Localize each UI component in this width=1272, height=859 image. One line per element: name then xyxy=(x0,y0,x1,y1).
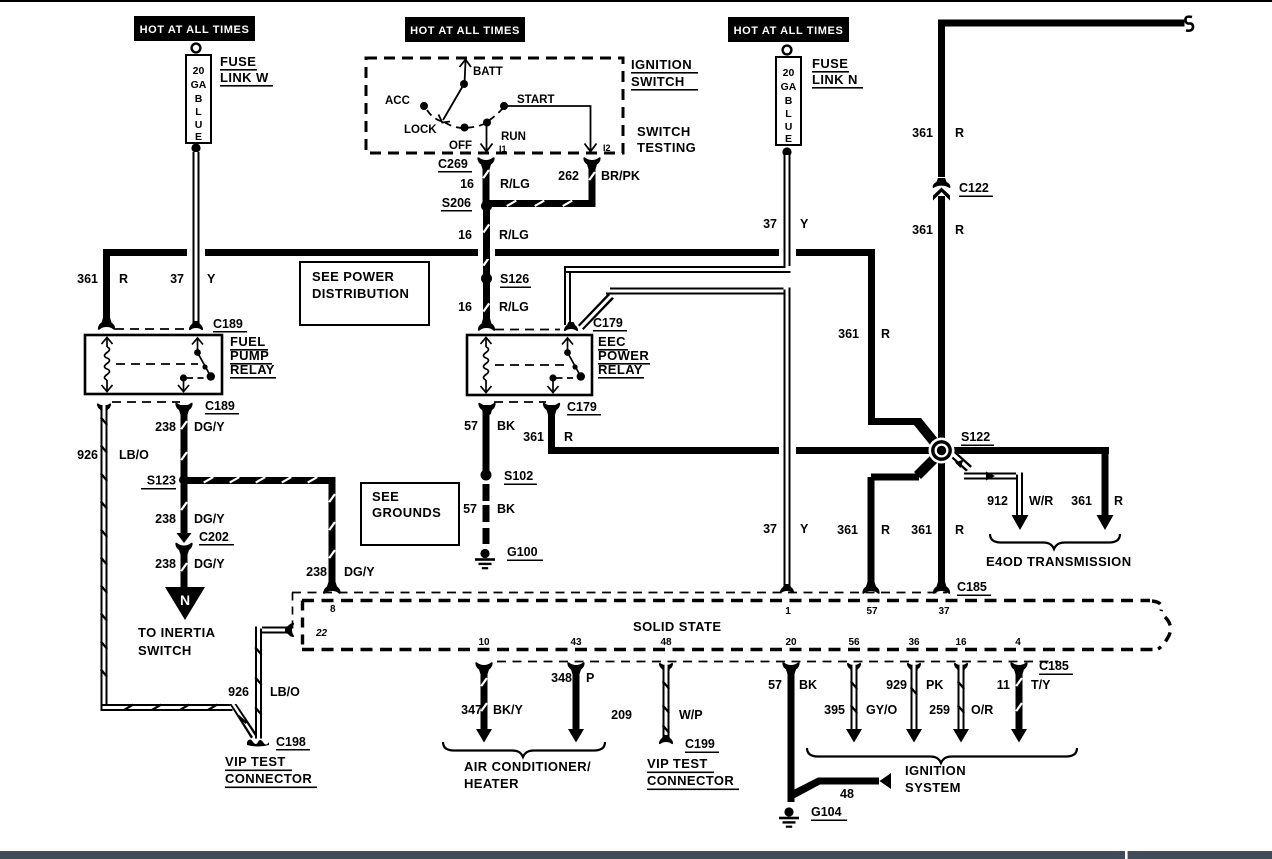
svg-text:EEC: EEC xyxy=(598,334,626,349)
splice S126 xyxy=(481,273,492,284)
svg-text:Y: Y xyxy=(207,272,216,286)
svg-text:1: 1 xyxy=(785,606,791,617)
svg-text:S126: S126 xyxy=(500,272,529,286)
top border line xyxy=(0,0,1272,2)
pin 20 wire 57 BK down to G104 xyxy=(782,662,799,802)
svg-text:BK: BK xyxy=(497,502,515,516)
svg-text:C179: C179 xyxy=(593,316,623,330)
svg-text:BK: BK xyxy=(497,419,515,433)
svg-text:BK/Y: BK/Y xyxy=(493,703,524,717)
dashed wire 57 BK S102 to G100 xyxy=(483,484,490,544)
pin 4 wire 11 T/Y xyxy=(1010,662,1027,742)
solid state module heavy dashed outline xyxy=(302,601,1171,650)
svg-text:Y: Y xyxy=(800,522,809,536)
svg-text:I2: I2 xyxy=(603,143,611,153)
svg-text:OFF: OFF xyxy=(449,140,472,152)
svg-text:DG/Y: DG/Y xyxy=(344,565,375,579)
svg-text:DISTRIBUTION: DISTRIBUTION xyxy=(312,286,409,301)
wire B: C179 diagonal up right then down to C185 pin 1 (37 Y) xyxy=(578,288,794,594)
svg-text:37: 37 xyxy=(938,606,950,617)
continuation S squiggle top right xyxy=(1185,17,1193,31)
svg-text:395: 395 xyxy=(824,703,845,717)
label C179 top xyxy=(593,316,627,332)
connector C122 inline xyxy=(933,177,951,201)
svg-text:238: 238 xyxy=(155,557,176,571)
svg-text:VIP TEST: VIP TEST xyxy=(647,756,708,771)
connector C185 top thin dashed line xyxy=(292,593,947,635)
svg-text:4: 4 xyxy=(1015,637,1021,648)
label IGNITION SYSTEM xyxy=(905,763,966,795)
svg-text:57: 57 xyxy=(768,678,782,692)
svg-text:37: 37 xyxy=(763,217,777,231)
svg-text:SEE POWER: SEE POWER xyxy=(312,269,395,284)
svg-text:SWITCH: SWITCH xyxy=(631,74,685,89)
svg-text:11: 11 xyxy=(997,678,1010,692)
svg-text:SOLID STATE: SOLID STATE xyxy=(633,619,721,634)
label C202 xyxy=(199,530,234,546)
svg-text:R: R xyxy=(955,223,964,237)
svg-text:O/R: O/R xyxy=(971,703,993,717)
926 wire hatch marks horizontal xyxy=(123,704,218,711)
redraw 37 Y wire over crossing xyxy=(784,443,791,458)
svg-text:R: R xyxy=(564,430,573,444)
svg-text:SEE: SEE xyxy=(372,489,399,504)
svg-text:W/P: W/P xyxy=(679,708,703,722)
main 361 R bus wire horizontal xyxy=(103,249,875,256)
svg-text:R: R xyxy=(955,126,964,140)
label VIP TEST CONNECTOR (left) xyxy=(225,754,317,788)
svg-text:BATT: BATT xyxy=(473,66,503,78)
label C189 top xyxy=(213,317,247,333)
svg-text:R: R xyxy=(1114,494,1123,508)
svg-text:57: 57 xyxy=(866,606,878,617)
svg-text:GY/O: GY/O xyxy=(866,703,898,717)
svg-text:IGNITION: IGNITION xyxy=(631,57,692,72)
svg-text:G100: G100 xyxy=(507,545,538,559)
svg-text:E: E xyxy=(785,133,792,145)
svg-text:C122: C122 xyxy=(959,181,989,195)
svg-text:57: 57 xyxy=(464,419,478,433)
white break in bus at 37 Y wire crossing xyxy=(779,247,796,259)
svg-text:W/R: W/R xyxy=(1029,494,1053,508)
svg-text:262: 262 xyxy=(558,169,579,183)
svg-text:RELAY: RELAY xyxy=(230,362,275,377)
svg-text:926: 926 xyxy=(228,685,249,699)
fuel pump relay box xyxy=(85,335,222,394)
svg-text:E4OD TRANSMISSION: E4OD TRANSMISSION xyxy=(986,554,1131,569)
fuse link W symbol xyxy=(186,44,211,153)
svg-text:FUEL: FUEL xyxy=(230,334,266,349)
wire 238 C202 down to N triangle xyxy=(180,550,188,588)
svg-text:Y: Y xyxy=(800,217,809,231)
svg-text:S102: S102 xyxy=(504,469,533,483)
svg-text:DG/Y: DG/Y xyxy=(194,557,225,571)
svg-text:C269: C269 xyxy=(438,157,468,171)
svg-text:R/LG: R/LG xyxy=(499,228,529,242)
svg-text:SYSTEM: SYSTEM xyxy=(905,780,961,795)
HOT AT ALL TIMES box 1 xyxy=(134,16,255,41)
svg-text:238: 238 xyxy=(306,565,327,579)
svg-text:C189: C189 xyxy=(205,399,235,413)
BATT terminal arrow xyxy=(465,61,466,84)
svg-text:LINK N: LINK N xyxy=(812,72,858,87)
wire 361 R EEC relay down then right to S122 xyxy=(548,405,930,454)
svg-text:SWITCH: SWITCH xyxy=(138,643,192,658)
pin 36 wire 929 PK xyxy=(906,663,922,743)
svg-text:TESTING: TESTING xyxy=(637,140,696,155)
wire fuse W down to C189 (37 Y thin) xyxy=(189,152,203,330)
svg-text:GA: GA xyxy=(781,81,797,93)
svg-text:PUMP: PUMP xyxy=(230,348,269,363)
svg-text:361: 361 xyxy=(1071,494,1092,508)
ignition switch dashed box xyxy=(366,58,623,153)
svg-text:RUN: RUN xyxy=(501,131,526,143)
label C185 top xyxy=(957,580,991,596)
svg-text:56: 56 xyxy=(848,637,860,648)
svg-text:T/Y: T/Y xyxy=(1031,678,1051,692)
svg-text:VIP TEST: VIP TEST xyxy=(225,754,286,769)
svg-text:S206: S206 xyxy=(442,196,471,210)
HOT AT ALL TIMES box 2 xyxy=(405,17,525,42)
926 wire hatch marks vertical xyxy=(100,417,108,678)
svg-text:P: P xyxy=(586,671,594,685)
label AIR CONDITIONER/HEATER xyxy=(464,759,591,791)
A/C heater brace xyxy=(443,742,605,757)
svg-text:LINK W: LINK W xyxy=(220,70,269,85)
svg-text:R: R xyxy=(881,327,890,341)
svg-text:START: START xyxy=(517,94,554,106)
fuel pump relay internals xyxy=(102,338,211,392)
svg-text:BR/PK: BR/PK xyxy=(601,169,640,183)
svg-text:I1: I1 xyxy=(499,144,507,154)
svg-text:361: 361 xyxy=(837,523,858,537)
ground G104 xyxy=(779,807,799,827)
svg-text:S123: S123 xyxy=(147,474,176,488)
wire S126 to C179 (16 R/LG) xyxy=(478,283,495,331)
splice S102 xyxy=(481,470,492,481)
label IGNITION SWITCH xyxy=(631,57,698,91)
svg-text:HOT AT ALL TIMES: HOT AT ALL TIMES xyxy=(734,25,844,37)
label VIP TEST CONNECTOR (right) xyxy=(647,756,739,790)
connector C179 top dashed line xyxy=(495,329,560,331)
svg-text:FUSE: FUSE xyxy=(220,54,256,69)
label C269 xyxy=(438,157,472,173)
pin 16 wire 259 O/R xyxy=(953,663,969,743)
svg-text:L: L xyxy=(785,108,792,120)
SE branch: thin 912 W/R wire to E4OD xyxy=(949,450,1029,530)
fuse link N symbol xyxy=(776,46,801,157)
svg-text:FUSE: FUSE xyxy=(812,56,848,71)
wire A: fuse N down, left, down to C179 (37 Y) xyxy=(564,155,791,325)
ground G100 xyxy=(475,549,495,569)
svg-text:43: 43 xyxy=(570,637,582,648)
connector C189 top dashed line xyxy=(103,327,110,329)
svg-text:IGNITION: IGNITION xyxy=(905,763,966,778)
svg-text:HOT AT ALL TIMES: HOT AT ALL TIMES xyxy=(410,25,520,37)
N arrow to inertia switch xyxy=(165,587,205,620)
svg-text:C185: C185 xyxy=(1039,659,1069,673)
label SWITCH TESTING xyxy=(637,124,696,155)
svg-text:S122: S122 xyxy=(961,430,990,444)
E4OD brace xyxy=(990,534,1120,549)
label S122 xyxy=(961,430,994,446)
svg-text:GA: GA xyxy=(191,79,207,91)
white break in bus at R/LG wire crossing xyxy=(478,247,495,259)
START wire right and down with arrow xyxy=(505,106,591,150)
label FUSE LINK N xyxy=(812,56,863,89)
svg-text:361: 361 xyxy=(911,523,932,537)
svg-text:20: 20 xyxy=(783,67,795,79)
redraw R/LG wire over crossing xyxy=(483,246,490,259)
svg-text:LB/O: LB/O xyxy=(119,448,149,462)
svg-text:37: 37 xyxy=(170,272,184,286)
svg-text:N: N xyxy=(180,592,190,608)
wire 238 DG/Y C189 to S123 xyxy=(180,405,188,480)
wire I1 to S206 (16 R/LG) xyxy=(477,157,494,206)
svg-text:912: 912 xyxy=(987,494,1008,508)
label C189 bottom xyxy=(205,399,239,415)
svg-text:10: 10 xyxy=(478,637,490,648)
label FUSE LINK W xyxy=(220,54,273,87)
svg-text:48: 48 xyxy=(660,637,672,648)
svg-text:C199: C199 xyxy=(685,737,715,751)
svg-text:C179: C179 xyxy=(567,400,597,414)
E branch: thick right then down to E4OD arrow xyxy=(945,447,1114,530)
label C199 xyxy=(685,737,719,753)
svg-text:37: 37 xyxy=(763,522,777,536)
switch position dots xyxy=(460,80,468,88)
branch 48 to ignition system xyxy=(788,773,892,802)
S122 junction circle xyxy=(929,438,955,464)
svg-text:347: 347 xyxy=(461,703,482,717)
svg-text:16: 16 xyxy=(460,177,474,191)
svg-text:LB/O: LB/O xyxy=(270,685,300,699)
wire pin22 left and down to C198 xyxy=(254,627,291,739)
svg-text:TO INERTIA: TO INERTIA xyxy=(138,625,216,640)
svg-text:C185: C185 xyxy=(957,580,987,594)
svg-text:G104: G104 xyxy=(811,805,842,819)
svg-text:22: 22 xyxy=(315,628,328,639)
svg-text:361: 361 xyxy=(838,327,859,341)
svg-text:R: R xyxy=(881,523,890,537)
svg-text:36: 36 xyxy=(908,637,920,648)
label TO INERTIA SWITCH xyxy=(138,625,216,658)
svg-text:U: U xyxy=(195,119,203,131)
svg-text:361: 361 xyxy=(523,430,544,444)
svg-text:E: E xyxy=(195,131,202,143)
RUN terminal wire with down arrow xyxy=(486,124,488,150)
wire 238 DG/Y S123 right then down to pin 8 xyxy=(184,476,341,594)
svg-text:CONNECTOR: CONNECTOR xyxy=(225,771,312,786)
wire 361 R vertical x941 top to S122 to C185 pin 37 xyxy=(938,20,1185,589)
svg-text:HOT AT ALL TIMES: HOT AT ALL TIMES xyxy=(140,24,250,36)
connector C179 bottom dashed line xyxy=(494,401,546,403)
svg-text:SWITCH: SWITCH xyxy=(637,124,691,139)
svg-text:C202: C202 xyxy=(199,530,229,544)
svg-text:DG/Y: DG/Y xyxy=(194,420,225,434)
blade from BATT pivot to LOCK xyxy=(443,84,464,120)
EEC power relay box xyxy=(467,335,592,395)
svg-text:POWER: POWER xyxy=(598,348,649,363)
wire I2 (262 BR/PK) down and left to S206 xyxy=(489,157,601,207)
ignition system brace xyxy=(807,748,1077,763)
C189 bottom pin bells xyxy=(97,403,111,412)
svg-text:DG/Y: DG/Y xyxy=(194,512,225,526)
connector C185 bottom thin dashed line xyxy=(497,661,1058,663)
svg-text:L: L xyxy=(195,106,202,118)
svg-text:AIR CONDITIONER/: AIR CONDITIONER/ xyxy=(464,759,591,774)
connector C198 symbol xyxy=(247,740,269,747)
svg-text:57: 57 xyxy=(463,502,477,516)
svg-text:20: 20 xyxy=(193,65,205,77)
bus left corner down to C189 xyxy=(98,249,115,330)
svg-text:238: 238 xyxy=(155,512,176,526)
926 diagonal segment to C198 xyxy=(230,704,259,741)
svg-text:B: B xyxy=(785,95,793,107)
svg-text:348: 348 xyxy=(551,671,572,685)
C179 right pin bell xyxy=(564,322,578,331)
svg-text:259: 259 xyxy=(929,703,950,717)
label C179 bottom xyxy=(567,400,601,416)
svg-text:16: 16 xyxy=(458,300,472,314)
svg-text:209: 209 xyxy=(611,708,632,722)
svg-text:B: B xyxy=(195,93,203,105)
rotor arc dashed ACC-LOCK-OFF-RUN-START xyxy=(427,110,442,122)
svg-text:238: 238 xyxy=(155,420,176,434)
splice S123 xyxy=(179,475,189,485)
svg-text:U: U xyxy=(785,121,793,133)
ignition switch position labels xyxy=(385,66,611,154)
svg-text:R: R xyxy=(119,272,128,286)
SEE POWER DISTRIBUTION box xyxy=(300,262,429,325)
S122 hub branches xyxy=(868,455,939,588)
svg-text:LOCK: LOCK xyxy=(404,124,437,136)
pin 43 wire 348 P with arrow xyxy=(567,662,584,742)
label C185 bottom xyxy=(1039,659,1073,675)
HOT AT ALL TIMES box 3 xyxy=(728,17,849,42)
svg-text:R/LG: R/LG xyxy=(499,300,529,314)
svg-text:BK: BK xyxy=(799,678,817,692)
pin 48 wire 209 W/P to C199 xyxy=(659,663,673,744)
svg-text:926: 926 xyxy=(77,448,98,462)
svg-text:C189: C189 xyxy=(213,317,243,331)
svg-text:16: 16 xyxy=(458,228,472,242)
svg-text:GROUNDS: GROUNDS xyxy=(372,505,441,520)
pin 10 wire 347 BK/Y with arrow xyxy=(475,662,492,742)
svg-text:R/LG: R/LG xyxy=(500,177,530,191)
svg-text:361: 361 xyxy=(77,272,98,286)
svg-text:8: 8 xyxy=(330,604,336,615)
bottom bar xyxy=(0,851,1272,859)
svg-text:HEATER: HEATER xyxy=(464,776,519,791)
wire 238 S123 down to C202 xyxy=(175,484,192,555)
SW branch: diagonal, horizontal, down to C185 pin 57 xyxy=(914,455,938,479)
svg-text:48: 48 xyxy=(840,787,854,801)
pin 22 bell (opens right) xyxy=(285,623,294,637)
label C198 xyxy=(276,735,310,751)
svg-text:PK: PK xyxy=(926,678,943,692)
SEE GROUNDS box xyxy=(361,483,459,545)
ignition switch internals xyxy=(427,60,597,152)
label FUEL PUMP RELAY xyxy=(230,334,276,379)
svg-text:361: 361 xyxy=(912,126,933,140)
svg-text:361: 361 xyxy=(912,223,933,237)
bottom bar gap xyxy=(1125,851,1128,859)
svg-text:R: R xyxy=(955,523,964,537)
bus corner down to S122 (right side) xyxy=(868,249,938,446)
svg-text:ACC: ACC xyxy=(385,95,410,107)
label C122 xyxy=(959,181,993,197)
svg-text:RELAY: RELAY xyxy=(598,362,643,377)
wire 926 LB/O thin hatched: down, right, diagonal to C198 xyxy=(101,405,233,711)
connector C189 bottom dashed line xyxy=(112,401,180,403)
svg-text:929: 929 xyxy=(886,678,907,692)
wire 57 BK EEC to S102 xyxy=(483,405,490,472)
pin 56 wire 395 GY/O xyxy=(846,663,862,743)
svg-text:C198: C198 xyxy=(276,735,306,749)
white break in bus at fuse W wire crossing xyxy=(187,247,205,259)
EEC power relay internals xyxy=(481,338,581,393)
label EEC POWER RELAY xyxy=(598,334,650,379)
splice S206 xyxy=(481,201,492,212)
svg-text:20: 20 xyxy=(785,637,797,648)
svg-text:16: 16 xyxy=(955,637,967,648)
white break at 37Y crossing xyxy=(779,445,796,457)
svg-text:CONNECTOR: CONNECTOR xyxy=(647,773,734,788)
wire S206 to S126 (16 R/LG) xyxy=(483,210,491,275)
